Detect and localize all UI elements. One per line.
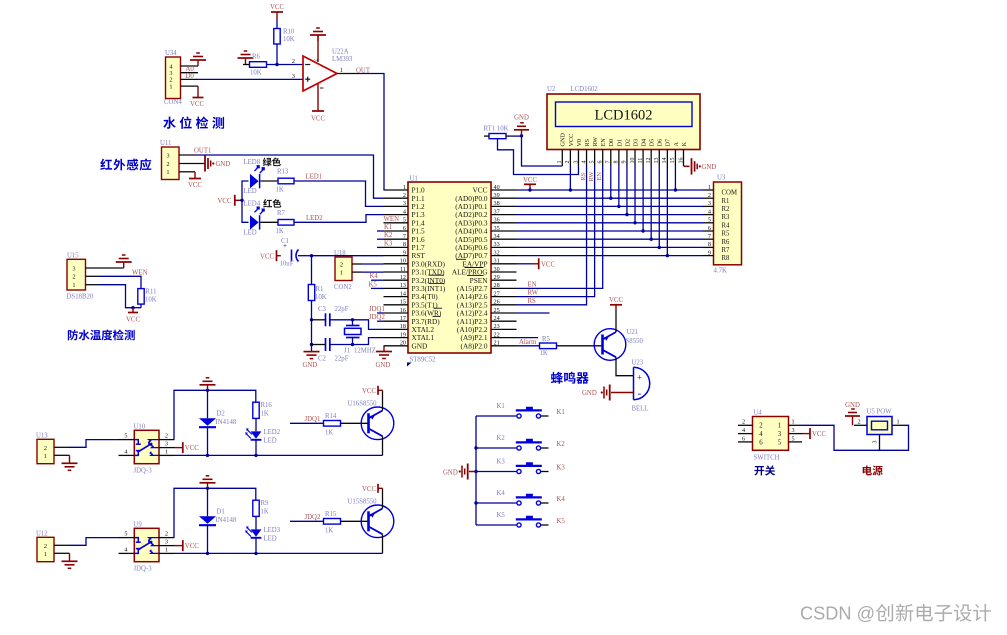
svg-text:RW: RW [528, 290, 539, 297]
relay U10 coil and contacts [134, 440, 138, 445]
U12 pin2 stub [54, 544, 70, 546]
svg-text:22pF: 22pF [335, 356, 349, 363]
wire LCD A pin15 to VCC row [674, 166, 676, 190]
connector U15 DS18B20 [67, 259, 86, 290]
U4 pin stub left 6 [738, 441, 753, 443]
wire crystal bottom to U1 XTAL1 [353, 338, 384, 345]
resistor R5 [540, 343, 557, 349]
power VCC (U34 pin1) [197, 86, 199, 97]
svg-text:20: 20 [400, 340, 406, 347]
U4 pin stub left 2 [738, 424, 753, 426]
U1 pin 27 stub [491, 296, 517, 298]
U1 pin 2 stub [384, 197, 409, 199]
svg-text:1: 1 [340, 269, 343, 276]
wire relay bottom rail [175, 454, 383, 456]
svg-text:GND: GND [514, 115, 529, 122]
svg-text:R15: R15 [325, 511, 337, 518]
overline PSEN [467, 275, 484, 277]
wire crystal top to U1 XTAL2 [353, 320, 384, 330]
svg-text:R4: R4 [722, 222, 731, 229]
svg-text:37: 37 [494, 208, 500, 215]
svg-text:D1: D1 [616, 139, 623, 147]
svg-text:14: 14 [662, 158, 668, 164]
svg-text:SWITCH: SWITCH [754, 455, 780, 462]
svg-text:JDQ2: JDQ2 [305, 514, 321, 521]
svg-text:J1: J1 [344, 348, 350, 355]
connector U12 [37, 537, 54, 561]
overline INT0 [429, 274, 445, 276]
resistor R1 [311, 256, 313, 285]
svg-text:RS: RS [584, 138, 591, 146]
overline WR [434, 307, 443, 309]
wire C1 to RST node [298, 255, 312, 257]
svg-text:K5: K5 [497, 512, 506, 519]
svg-text:3: 3 [165, 539, 168, 546]
wire Q collector to rail [382, 436, 384, 455]
svg-text:+: + [637, 373, 642, 383]
svg-text:U4: U4 [754, 410, 763, 417]
svg-text:1: 1 [72, 282, 75, 289]
svg-text:VCC: VCC [311, 116, 325, 123]
LCD pin 14 stub [666, 150, 668, 167]
svg-text:6: 6 [403, 225, 406, 232]
U4 pin stub right 5 [789, 441, 803, 443]
svg-text:11: 11 [638, 158, 644, 164]
U9 pin4 stub [119, 552, 135, 554]
U5 pin1 stub [892, 424, 904, 426]
svg-text:VCC: VCC [523, 177, 537, 184]
U11 pin1 stub [179, 171, 195, 173]
svg-text:10uF: 10uF [280, 261, 294, 268]
power VCC (U4 pin3) [809, 428, 811, 439]
svg-text:U16S8550: U16S8550 [348, 401, 378, 408]
svg-text:VCC: VCC [185, 543, 199, 550]
svg-text:1K: 1K [261, 411, 269, 418]
svg-text:8: 8 [403, 241, 406, 248]
wire R10 to node [276, 44, 278, 65]
svg-text:4: 4 [581, 161, 587, 164]
U1 pin 25 stub [491, 312, 517, 314]
capacitor C3 22pF [325, 313, 327, 326]
svg-text:2: 2 [166, 161, 169, 168]
svg-text:RS: RS [528, 298, 537, 305]
wire Q collector to buzzer [616, 357, 634, 376]
power module U5 POW [867, 417, 892, 435]
U18 pin1 stub [352, 271, 362, 273]
svg-text:K1: K1 [557, 409, 565, 416]
wire R16 to LED [255, 418, 257, 431]
LED LED3 [251, 529, 262, 536]
svg-text:U5 POW: U5 POW [867, 409, 893, 416]
svg-text:30: 30 [494, 266, 500, 273]
U3 pin 3 stub [703, 205, 714, 207]
op-amp U22A LM393 [303, 56, 337, 91]
svg-text:8: 8 [708, 241, 711, 248]
U4 pin stub right 3 [789, 433, 803, 435]
svg-text:9: 9 [622, 161, 628, 164]
svg-text:15: 15 [400, 299, 406, 306]
svg-text:10: 10 [630, 158, 636, 164]
svg-text:D2: D2 [217, 411, 226, 418]
svg-text:3: 3 [873, 441, 879, 444]
wire LED4 to R7 [261, 221, 279, 223]
LED LED2 [251, 431, 262, 438]
resistor R6 [250, 62, 267, 68]
U34 pin4 stub [181, 65, 199, 67]
svg-text:8: 8 [614, 161, 620, 164]
diode D1 IN4148 [207, 488, 209, 516]
svg-text:GND: GND [702, 164, 717, 171]
svg-text:3: 3 [573, 161, 579, 164]
U1 pin 5 stub [384, 222, 409, 224]
resistor R7 [278, 220, 294, 226]
svg-text:38: 38 [494, 200, 500, 207]
LCD pin 6 stub [602, 150, 604, 167]
svg-text:U15S8550: U15S8550 [348, 499, 378, 506]
wire U12 pin2 to relay pin5 [70, 538, 119, 546]
svg-text:R9: R9 [261, 500, 270, 507]
svg-text:17: 17 [400, 315, 406, 322]
svg-text:R16: R16 [261, 402, 273, 409]
svg-text:JDQ2: JDQ2 [369, 314, 385, 321]
svg-text:R3: R3 [722, 214, 731, 221]
U3 pin 4 stub [703, 214, 714, 216]
svg-text:R14: R14 [325, 413, 337, 420]
wire U13 pin2 to relay pin5 [70, 440, 119, 448]
svg-text:7: 7 [606, 161, 612, 164]
svg-text:39: 39 [494, 192, 500, 199]
U10 pin5 stub [119, 439, 135, 441]
wire stub pin22 [517, 337, 539, 339]
ground (R6 left) [245, 58, 247, 65]
wire EA to VCC (pin31) [517, 263, 532, 265]
wire U15 pin1 to VCC node [100, 285, 133, 308]
svg-text:2: 2 [403, 192, 406, 199]
svg-text:VCC: VCC [568, 134, 575, 147]
svg-text:3: 3 [72, 265, 75, 272]
connector U13 [37, 439, 54, 463]
svg-text:29: 29 [494, 274, 500, 281]
svg-text:10K: 10K [315, 294, 327, 301]
U1 pin 37 stub [491, 214, 517, 216]
svg-text:33: 33 [494, 241, 500, 248]
wire R11 to VCC node [140, 304, 142, 308]
op-amp pin8 to VCC [317, 84, 319, 111]
power VCC (U16) [377, 386, 379, 395]
U1 pin 35 stub [491, 230, 517, 232]
svg-text:4: 4 [708, 208, 711, 215]
svg-text:U2: U2 [547, 86, 556, 93]
LCD pin 4 stub [586, 150, 588, 167]
svg-text:U12: U12 [36, 530, 48, 537]
svg-text:K4: K4 [557, 496, 566, 503]
wire relay bottom rail [175, 552, 383, 554]
U1 pin 31 stub [491, 263, 517, 265]
svg-text:22: 22 [494, 331, 500, 338]
annotation power [863, 465, 883, 475]
svg-text:K3: K3 [557, 465, 566, 472]
wire R5 to Q base [557, 345, 603, 347]
wire P0 bus rows [517, 189, 704, 191]
annotation green color [263, 158, 281, 167]
svg-text:COM: COM [722, 190, 738, 197]
svg-text:VCC: VCC [218, 198, 232, 205]
connector U34 CON4 [166, 57, 181, 99]
svg-text:3: 3 [166, 152, 169, 159]
svg-text:JDQ1: JDQ1 [305, 416, 321, 423]
ground (relay rail) [207, 385, 209, 391]
relay U9 coil and contacts [134, 538, 138, 543]
svg-text:EN: EN [596, 172, 603, 181]
crystal J1 12MHZ [352, 320, 354, 326]
overline INT1 [429, 282, 445, 284]
svg-text:CSDN @: CSDN @ [800, 604, 875, 624]
svg-text:VCC: VCC [260, 253, 274, 260]
svg-text:9: 9 [708, 249, 711, 256]
svg-text:2: 2 [742, 419, 745, 426]
svg-text:K5: K5 [557, 518, 566, 525]
IC U1 ST89C52 [408, 182, 491, 353]
switch K4 [476, 502, 517, 504]
U3 pin 8 stub [703, 246, 714, 248]
svg-text:13: 13 [400, 282, 406, 289]
wire LCD data columns [610, 166, 612, 198]
svg-text:U23: U23 [632, 360, 644, 367]
LCD pin 12 stub [650, 150, 652, 167]
U1 pin 13 stub [384, 287, 409, 289]
connector U4 SWITCH [753, 417, 789, 451]
svg-text:BELL: BELL [632, 406, 649, 413]
svg-text:10K: 10K [283, 36, 295, 43]
U1 pin 30 stub [491, 271, 517, 273]
wire C3 left [312, 319, 326, 321]
svg-text:K2: K2 [384, 232, 393, 239]
svg-text:2: 2 [858, 418, 861, 425]
svg-text:CON4: CON4 [164, 99, 182, 106]
svg-text:1: 1 [44, 551, 47, 558]
op-amp pin1 stub [337, 73, 358, 75]
U1 pin 22 stub [491, 337, 517, 339]
wire R9 to LED [255, 516, 257, 529]
svg-text:LED: LED [244, 188, 257, 195]
svg-text:LCD1602: LCD1602 [595, 108, 653, 124]
svg-text:LED2: LED2 [306, 215, 323, 222]
svg-text:3: 3 [165, 441, 168, 448]
resistor R11 [138, 289, 144, 305]
U15 pin2 stub [86, 275, 101, 277]
svg-text:1K: 1K [325, 528, 333, 535]
svg-text:13: 13 [654, 158, 660, 164]
transistor U21 S8550 PNP [594, 329, 626, 361]
wire LED8 to R13 [261, 180, 279, 182]
U1 pin 6 stub [384, 230, 409, 232]
svg-text:K4: K4 [370, 273, 379, 280]
svg-text:4: 4 [742, 427, 745, 434]
svg-text:10K: 10K [250, 70, 262, 77]
svg-text:LED: LED [264, 536, 277, 543]
U10 pin1 stub [159, 454, 175, 456]
svg-text:RW: RW [592, 137, 599, 147]
svg-text:(A8)P2.0: (A8)P2.0 [461, 341, 488, 350]
svg-text:R6: R6 [722, 239, 731, 246]
U1 pin 24 stub [491, 320, 517, 322]
svg-text:21: 21 [494, 340, 500, 347]
svg-text:VCC: VCC [270, 4, 284, 11]
svg-text:3: 3 [778, 431, 782, 438]
wire U4 pin1 to U5 loop [802, 425, 909, 450]
ground (U1 GND pin20) [383, 346, 385, 352]
U1 pin 32 stub [491, 255, 517, 257]
U34 pin3 stub [181, 72, 199, 74]
svg-text:34: 34 [494, 233, 500, 240]
svg-text:ST89C52: ST89C52 [410, 357, 437, 364]
ground (U12 pin1) [69, 553, 71, 561]
power VCC (U9 pin3) [182, 540, 184, 551]
svg-text:VCC: VCC [185, 445, 199, 452]
U9 pin3 stub [159, 545, 175, 547]
ground (contrast) [520, 134, 523, 137]
transistor U15 S8550 PNP [361, 505, 394, 538]
U1 pin 15 stub [384, 304, 409, 306]
svg-text:D1: D1 [217, 509, 225, 516]
svg-text:VCC: VCC [812, 431, 826, 438]
svg-text:DS18B20: DS18B20 [67, 293, 94, 300]
svg-text:D2: D2 [624, 139, 631, 147]
svg-text:R6: R6 [252, 54, 261, 61]
svg-text:K1: K1 [384, 224, 392, 231]
svg-text:2: 2 [340, 261, 343, 268]
svg-text:GND: GND [376, 362, 391, 369]
svg-text:1: 1 [708, 184, 711, 191]
svg-text:1: 1 [792, 419, 795, 426]
LCD pin 10 stub [634, 150, 636, 167]
svg-text:5: 5 [403, 217, 406, 224]
U9 pin2 stub [159, 537, 175, 539]
svg-text:R7: R7 [722, 247, 731, 254]
U1 pin 18 stub [384, 328, 409, 330]
LCD pin 5 stub [594, 150, 596, 167]
svg-text:2: 2 [44, 445, 47, 452]
svg-text:LED3: LED3 [264, 527, 281, 534]
wire U18 pin2 to U1 pin10 [362, 263, 384, 265]
U1 pin 9 stub [384, 255, 409, 257]
wire R13 to U1 pin3 [294, 181, 384, 206]
U1 pin 19 stub [384, 337, 409, 339]
U1 pin 20 stub [384, 345, 409, 347]
svg-text:K2: K2 [497, 435, 506, 442]
svg-text:RW: RW [588, 171, 595, 182]
svg-text:D4: D4 [641, 139, 648, 147]
U1 pin 38 stub [491, 205, 517, 207]
U1 pin 7 stub [384, 238, 409, 240]
svg-text:9: 9 [403, 249, 406, 256]
capacitor C2 22pF [325, 338, 327, 351]
wire D0 to op-amp pin3 [198, 78, 303, 80]
U1 pin 26 stub [491, 304, 517, 306]
LCD pin 13 stub [658, 150, 660, 167]
svg-text:1: 1 [403, 184, 406, 191]
svg-text:7: 7 [403, 233, 406, 240]
buzzer U23 BELL [633, 367, 635, 399]
U18 pin2 stub [352, 263, 362, 265]
U1 pin 10 stub [384, 263, 409, 265]
U1 pin 39 stub [491, 197, 517, 199]
svg-text:R1: R1 [722, 198, 730, 205]
switch K1 [476, 415, 517, 417]
U13 pin1 stub [54, 454, 70, 456]
U34 pin1 stub [181, 85, 199, 87]
svg-text:D6: D6 [657, 139, 664, 147]
svg-text:12: 12 [646, 158, 652, 164]
wire OUT to U1 pin1 [358, 74, 384, 191]
switch K5 [476, 524, 517, 526]
LED LED8 green [250, 174, 259, 188]
svg-text:U15: U15 [67, 252, 79, 259]
wire LCD VCC pin2 down [569, 166, 571, 190]
ground (relay rail) [207, 483, 209, 489]
ground (U13 pin1) [69, 455, 71, 463]
svg-text:5: 5 [124, 531, 127, 538]
wire LCD GND pin1 to pot [522, 136, 563, 166]
svg-text:JDQ-3: JDQ-3 [134, 566, 153, 573]
U9 pin1 stub [159, 552, 175, 554]
svg-text:JDQ-3: JDQ-3 [134, 468, 153, 475]
wire Q emitter to VCC [382, 390, 384, 410]
svg-text:U22A: U22A [332, 49, 349, 56]
svg-text:V0: V0 [576, 139, 583, 147]
wire relay top rail [174, 390, 256, 439]
U1 pin 34 stub [491, 238, 517, 240]
svg-text:4: 4 [403, 208, 406, 215]
annotation buzzer [551, 372, 589, 384]
LCD pin 8 stub [618, 150, 620, 167]
wire key common bus [475, 416, 477, 525]
svg-text:2: 2 [72, 274, 75, 281]
svg-text:K3: K3 [497, 459, 506, 466]
LCD pin 3 stub [577, 150, 579, 167]
svg-text:U13: U13 [36, 432, 48, 439]
svg-text:2: 2 [565, 161, 571, 164]
relay U10 JDQ-3 [134, 430, 159, 463]
svg-text:GND: GND [216, 161, 231, 168]
wire R7 to U1 pin4 [294, 215, 384, 223]
svg-text:10K: 10K [145, 297, 157, 304]
svg-text:VCC: VCC [126, 317, 140, 324]
svg-text:CON2: CON2 [334, 284, 352, 291]
svg-text:EN: EN [528, 282, 537, 289]
svg-text:6: 6 [708, 225, 711, 232]
LCD module U2 LCD1602 [547, 94, 700, 150]
diode D2 IN4148 [207, 390, 209, 418]
switch K3 [476, 471, 517, 473]
svg-text:2: 2 [759, 423, 763, 430]
power VCC (U11 pin1) [194, 172, 196, 179]
U10 pin2 stub [159, 439, 175, 441]
svg-text:JDQ1: JDQ1 [369, 306, 385, 313]
U12 pin1 stub [54, 552, 70, 554]
ground (R1/C2) [311, 351, 313, 353]
svg-text:C2: C2 [318, 356, 327, 363]
svg-text:LM393: LM393 [332, 56, 353, 63]
U1 pin 23 stub [491, 328, 517, 330]
op-amp pin7 to ground [317, 35, 319, 62]
wire Q emitter to VCC [615, 310, 617, 332]
svg-text:5: 5 [589, 161, 595, 164]
ground (U11 pin2) [203, 163, 205, 165]
svg-text:GND: GND [443, 469, 458, 476]
svg-text:10: 10 [400, 258, 406, 265]
svg-text:GND: GND [845, 402, 860, 409]
